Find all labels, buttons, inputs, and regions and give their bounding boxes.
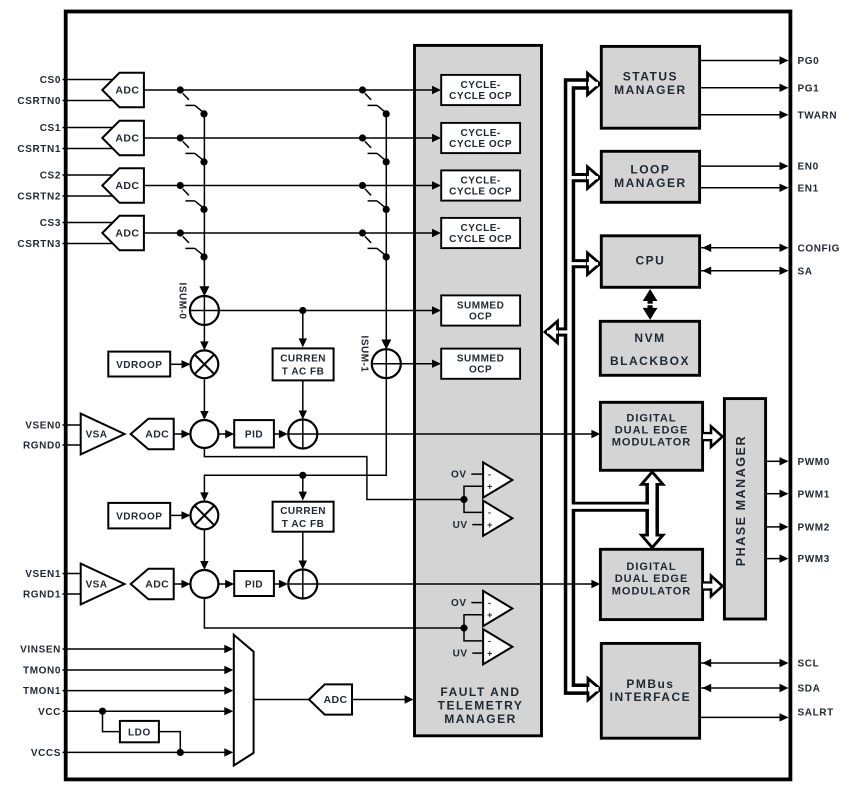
junction dot ISUM1-CAFB1 [299,472,306,479]
svg-text:EN0: EN0 [798,162,819,173]
mixer circle channel 1 [190,570,218,598]
svg-text:T AC FB: T AC FB [282,519,325,530]
bus white interior [556,84,653,689]
svg-text:ADC: ADC [115,133,139,145]
svg-text:LOOP: LOOP [630,163,670,177]
node ISUM-1 summing circle [372,349,401,378]
svg-text:ADC: ADC [115,85,139,97]
wire down to CURRENT AC FB 1 [302,475,304,495]
hollow arrow modulator link down [641,535,663,548]
arrowhead into CYCLE-CYCLE OCP 0 [432,86,441,94]
svg-text:PWM2: PWM2 [798,523,830,534]
switch SW0B row 0 to ISUM-1 [359,86,390,117]
wire mux to ADC [254,699,309,701]
svg-text:OCP: OCP [469,365,492,376]
ADC telemetry mux [309,684,352,714]
ADC current sense 0 [102,73,144,108]
svg-text:MANAGER: MANAGER [444,712,517,726]
svg-text:PHASE MANAGER: PHASE MANAGER [734,435,748,566]
pin wire EN1 [701,184,789,192]
hollow bus branch to CPU [570,259,591,268]
svg-text:CS3: CS3 [40,218,61,229]
pin wire PWM1 [767,490,789,498]
wire ADC to FAULT manager [352,699,409,701]
ADC current sense 3 [102,216,144,251]
ADC voltage sense 1 [131,569,174,599]
box PID 0 [234,420,274,447]
pin wire TWARN [701,111,789,119]
hollow arrow into STATUS MANAGER [588,73,601,95]
svg-text:LDO: LDO [128,728,151,739]
svg-text:SALRT: SALRT [798,707,834,718]
svg-text:CYCLE-: CYCLE- [460,80,500,91]
svg-text:VSEN0: VSEN0 [25,421,61,432]
svg-text:CYCLE OCP: CYCLE OCP [449,186,512,197]
svg-text:CURREN: CURREN [280,354,326,365]
block U_DDEM2 DIGITAL DUAL EDGE MODULATOR 2 [600,549,702,619]
svg-text:DIGITAL: DIGITAL [626,561,676,573]
svg-text:SA: SA [798,266,813,277]
svg-text:SDA: SDA [798,684,821,695]
block U_PMBUS PMBus INTERFACE [601,643,699,738]
pin wire TMON1 to mux [63,690,226,692]
hollow bus branch to LOOP MANAGER [570,173,591,182]
wire PID0 to summer0 [274,433,283,435]
svg-text:VDROOP: VDROOP [116,512,162,523]
svg-text:CSRTN2: CSRTN2 [17,192,61,203]
svg-text:DIGITAL: DIGITAL [626,413,676,425]
svg-text:NVM: NVM [634,331,665,345]
svg-text:PWM1: PWM1 [798,489,830,500]
hollow arrow into CPU [588,253,601,275]
amplifier VSA 1 [81,564,125,605]
amplifier VSA 0 [81,414,125,455]
wire ISUM-1 summing bus vertical [385,114,387,345]
mixer circle channel 0 [190,420,218,448]
svg-text:PID: PID [245,579,263,590]
box CURRENT AC FB 1 [273,502,334,532]
svg-text:+: + [487,610,492,620]
block U_FTM FAULT AND TELEMETRY MANAGER [415,45,542,735]
hollow arrow into PMBus INTERFACE [588,678,601,700]
svg-text:TMON0: TMON0 [23,666,61,677]
pin wire PWM3 [767,554,789,562]
svg-text:ADC: ADC [145,579,169,591]
pin wire SA [701,267,789,275]
multiplier circle channel 1 [191,502,219,530]
multiplier circle channel 0 [191,350,219,378]
svg-text:VCCS: VCCS [31,748,61,759]
ADC current sense 1 [102,121,144,156]
svg-text:ADC: ADC [115,180,139,192]
wire VCC to LDO [103,711,120,731]
switch SW1B row 1 to ISUM-1 [359,134,390,165]
hollow bus branch to modulator link [570,502,653,512]
svg-text:VSA: VSA [86,430,108,441]
svg-text:CS2: CS2 [40,171,61,182]
svg-text:PG0: PG0 [798,56,820,67]
svg-text:PG1: PG1 [798,83,820,94]
svg-text:PMBus: PMBus [626,677,674,691]
box PID 1 [234,571,274,596]
svg-text:-: - [488,598,491,608]
wire VDROOP0 to multiplier [170,363,186,365]
box CYCLE-CYCLE OCP 2 [441,170,520,200]
junction dot LDO-VCCS [177,749,184,756]
pin wire PWM0 [767,457,789,465]
block U_NVM NVM BLACKBOX [600,321,699,375]
wire VDROOP1 to multiplier [170,514,186,516]
svg-text:MODULATOR: MODULATOR [612,585,691,597]
box CYCLE-CYCLE OCP 1 [441,123,520,153]
svg-text:RGND0: RGND0 [23,441,61,452]
wire ISUM-0 summing bus vertical [203,114,205,292]
wire CS row 2 ADC output to CYCLE-CYCLE OCP [144,185,433,187]
block U_CPU CPU [601,236,699,287]
block U_PM PHASE MANAGER [724,399,765,619]
pin stub VSEN1 [63,573,91,575]
switch SW3A row 3 to ISUM-0 [177,229,208,260]
wire ISUM-1 node to SUMMED OCP [386,363,432,365]
pin wire EN0 [701,162,789,170]
pin wire TMON0 to mux [63,669,226,671]
svg-text:CYCLE OCP: CYCLE OCP [449,234,512,245]
pin wire PWM2 [767,523,789,531]
pin stub RGND1 [63,593,91,595]
hollow arrow DDEM1 to PHASE MANAGER [703,432,714,441]
svg-text:CYCLE OCP: CYCLE OCP [449,139,512,150]
svg-text:CYCLE-: CYCLE- [460,223,500,234]
svg-text:DUAL EDGE: DUAL EDGE [615,573,689,585]
switch SW1A row 1 to ISUM-0 [177,134,208,165]
pin wire PG0 [701,56,789,64]
junction dot node ISUM0-CAFB0 [299,307,306,314]
wire mixer1 to PID1 [218,583,229,585]
bidirectional arrow CPU-NVM [642,289,658,320]
box CYCLE-CYCLE OCP 3 [441,218,520,248]
block U_SM STATUS MANAGER [601,46,699,128]
arrowhead into CYCLE-CYCLE OCP 3 [432,229,441,237]
wire CURRENT AC FB 1 to summer1 [302,532,304,565]
svg-text:VSA: VSA [86,580,108,591]
wire ISUM-0 node to SUMMED OCP [204,310,432,312]
svg-text:CYCLE-: CYCLE- [460,175,500,186]
summer circle channel 0 [288,420,317,449]
svg-text:UV: UV [453,649,468,660]
switch SW3B row 3 to ISUM-1 [359,229,390,260]
svg-text:OV: OV [451,470,466,481]
node ISUM-0 summing circle [190,296,219,325]
svg-text:RGND1: RGND1 [23,590,61,601]
svg-text:ISUM-1: ISUM-1 [358,336,369,373]
svg-text:TELEMETRY: TELEMETRY [438,699,524,713]
box VDROOP 0 [108,352,170,377]
wire ISUM-0 node down to multiplier [203,296,205,346]
svg-text:UV: UV [453,520,468,531]
svg-text:CPU: CPU [635,253,665,267]
svg-text:ADC: ADC [115,228,139,240]
switch SW0A row 0 to ISUM-0 [177,86,208,117]
junction dot VCC-LDO [99,708,106,715]
pin wire SALRT [701,713,789,721]
arrowhead into ISUM-1 node [381,340,391,350]
svg-text:FAULT AND: FAULT AND [440,685,520,699]
pin wire VCCS to mux [63,751,226,753]
svg-text:+: + [487,520,492,530]
block U_DDEM1 DIGITAL DUAL EDGE MODULATOR 1 [600,402,702,470]
hollow event bus main trunk [570,84,589,689]
svg-text:-: - [488,508,491,518]
pin wire SDA [701,684,789,692]
svg-text:INTERFACE: INTERFACE [610,690,692,704]
svg-text:OCP: OCP [469,311,492,322]
svg-text:CSRTN1: CSRTN1 [17,144,61,155]
svg-text:CONFIG: CONFIG [798,243,841,254]
LDO block [120,721,159,742]
svg-text:+: + [487,648,492,658]
svg-text:MODULATOR: MODULATOR [612,436,691,448]
pin wire VCC to mux [63,710,226,712]
svg-text:PWM3: PWM3 [798,554,830,565]
wire CS row 1 ADC output to CYCLE-CYCLE OCP [144,137,433,139]
pin stub VSEN0 [63,424,91,426]
svg-text:OV: OV [451,598,466,609]
wire mixer0 feedback to OV/UV 0 [204,448,464,500]
wire CS row 3 ADC output to CYCLE-CYCLE OCP [144,232,433,234]
mux trapezoid [234,635,254,766]
svg-text:ADC: ADC [324,694,348,706]
svg-text:CSRTN3: CSRTN3 [17,239,61,250]
pin stub CSRTN0 [63,100,119,102]
svg-text:VCC: VCC [38,707,61,718]
svg-text:T AC FB: T AC FB [282,367,325,378]
hollow modulator link vertical [645,481,659,538]
svg-text:EN1: EN1 [798,183,819,194]
wire multiplier1 to mixer1 [203,529,205,565]
wire ISUM-1 down and left to ch1 droop [204,378,386,496]
switch SW2B row 2 to ISUM-1 [359,182,390,213]
svg-text:MANAGER: MANAGER [614,83,687,97]
block U_LM LOOP MANAGER [601,151,699,202]
arrowhead into CYCLE-CYCLE OCP 2 [432,181,441,189]
pin stub CSRTN2 [63,195,119,197]
pin wire CONFIG [701,244,789,252]
box SUMMED OCP 1 [441,349,520,379]
svg-text:CURREN: CURREN [280,506,326,517]
pin stub CS2 [63,174,119,176]
pin stub CSRTN3 [63,243,119,245]
svg-text:ADC: ADC [145,429,169,441]
svg-text:CYCLE-: CYCLE- [460,128,500,139]
wire mixer1 feedback to OV/UV 1 [204,598,464,628]
svg-text:SUMMED: SUMMED [457,354,504,365]
svg-text:DUAL EDGE: DUAL EDGE [615,424,689,436]
arrowhead into ISUM-0 node [199,286,209,296]
svg-text:ISUM-0: ISUM-0 [177,283,188,320]
svg-text:SCL: SCL [798,659,820,670]
wire multiplier0 to mixer0 [203,378,205,415]
svg-text:VSEN1: VSEN1 [25,569,61,580]
hollow arrow modulator link up [641,472,663,485]
wire ADC ch0 to mixer0 [174,433,186,435]
svg-text:TMON1: TMON1 [23,686,61,697]
wire ADC ch1 to mixer1 [174,583,186,585]
svg-text:BLACKBOX: BLACKBOX [610,354,690,368]
pin stub CS0 [63,79,119,81]
summer circle channel 1 [288,570,317,599]
svg-text:CSRTN0: CSRTN0 [17,96,61,107]
pin wire VINSEN to mux [63,648,226,650]
switch SW2A row 2 to ISUM-0 [177,182,208,213]
box SUMMED OCP 0 [441,295,520,325]
hollow arrow DDEM2 to PHASE MANAGER [703,581,714,590]
wire mixer0 to PID0 [218,433,229,435]
pin stub CS1 [63,127,119,129]
svg-text:VINSEN: VINSEN [20,645,61,656]
arrowhead into SUMMED OCP 1 [432,360,441,368]
wire PID1 to summer1 [274,583,283,585]
svg-text:+: + [487,482,492,492]
svg-text:MANAGER: MANAGER [614,176,687,190]
hollow arrow into LOOP MANAGER [588,167,601,189]
svg-text:SUMMED: SUMMED [457,300,504,311]
hollow bus branch to FAULT manager (left) [557,327,572,336]
pin stub CS3 [63,222,119,224]
box CYCLE-CYCLE OCP 0 [441,75,520,105]
svg-text:CS0: CS0 [40,75,61,86]
box VDROOP 1 [108,503,170,529]
svg-text:TWARN: TWARN [798,110,838,121]
ADC current sense 2 [102,168,144,203]
svg-text:-: - [488,636,491,646]
pin wire PG1 [701,84,789,92]
svg-text:VDROOP: VDROOP [116,360,162,371]
wire LDO to VCCS [159,732,180,753]
ADC voltage sense 0 [131,419,174,449]
wire CS row 0 ADC output to CYCLE-CYCLE OCP [144,89,433,91]
arrowhead into SUMMED OCP 0 [432,306,441,314]
svg-text:STATUS: STATUS [623,70,678,84]
svg-text:PID: PID [245,430,263,441]
arrowhead into CYCLE-CYCLE OCP 1 [432,134,441,142]
pin wire SCL [701,659,789,667]
svg-text:CS1: CS1 [40,123,61,134]
pin stub RGND0 [63,444,91,446]
svg-text:-: - [488,469,491,479]
comparator pair OV/UV channel 1 [451,591,512,665]
wire down to CURRENT AC FB 0 [302,311,304,343]
pin stub CSRTN1 [63,148,119,150]
svg-text:CYCLE OCP: CYCLE OCP [449,91,512,102]
svg-text:PWM0: PWM0 [798,457,830,468]
box CURRENT AC FB 0 [273,348,334,380]
comparator pair OV/UV channel 0 [451,462,512,536]
wire summer1 to DDEM2 [317,583,596,585]
hollow arrow into FAULT manager [545,321,558,343]
wire summer0 to DDEM1 [317,433,596,435]
wire CURRENT AC FB 0 to summer0 [302,380,304,414]
